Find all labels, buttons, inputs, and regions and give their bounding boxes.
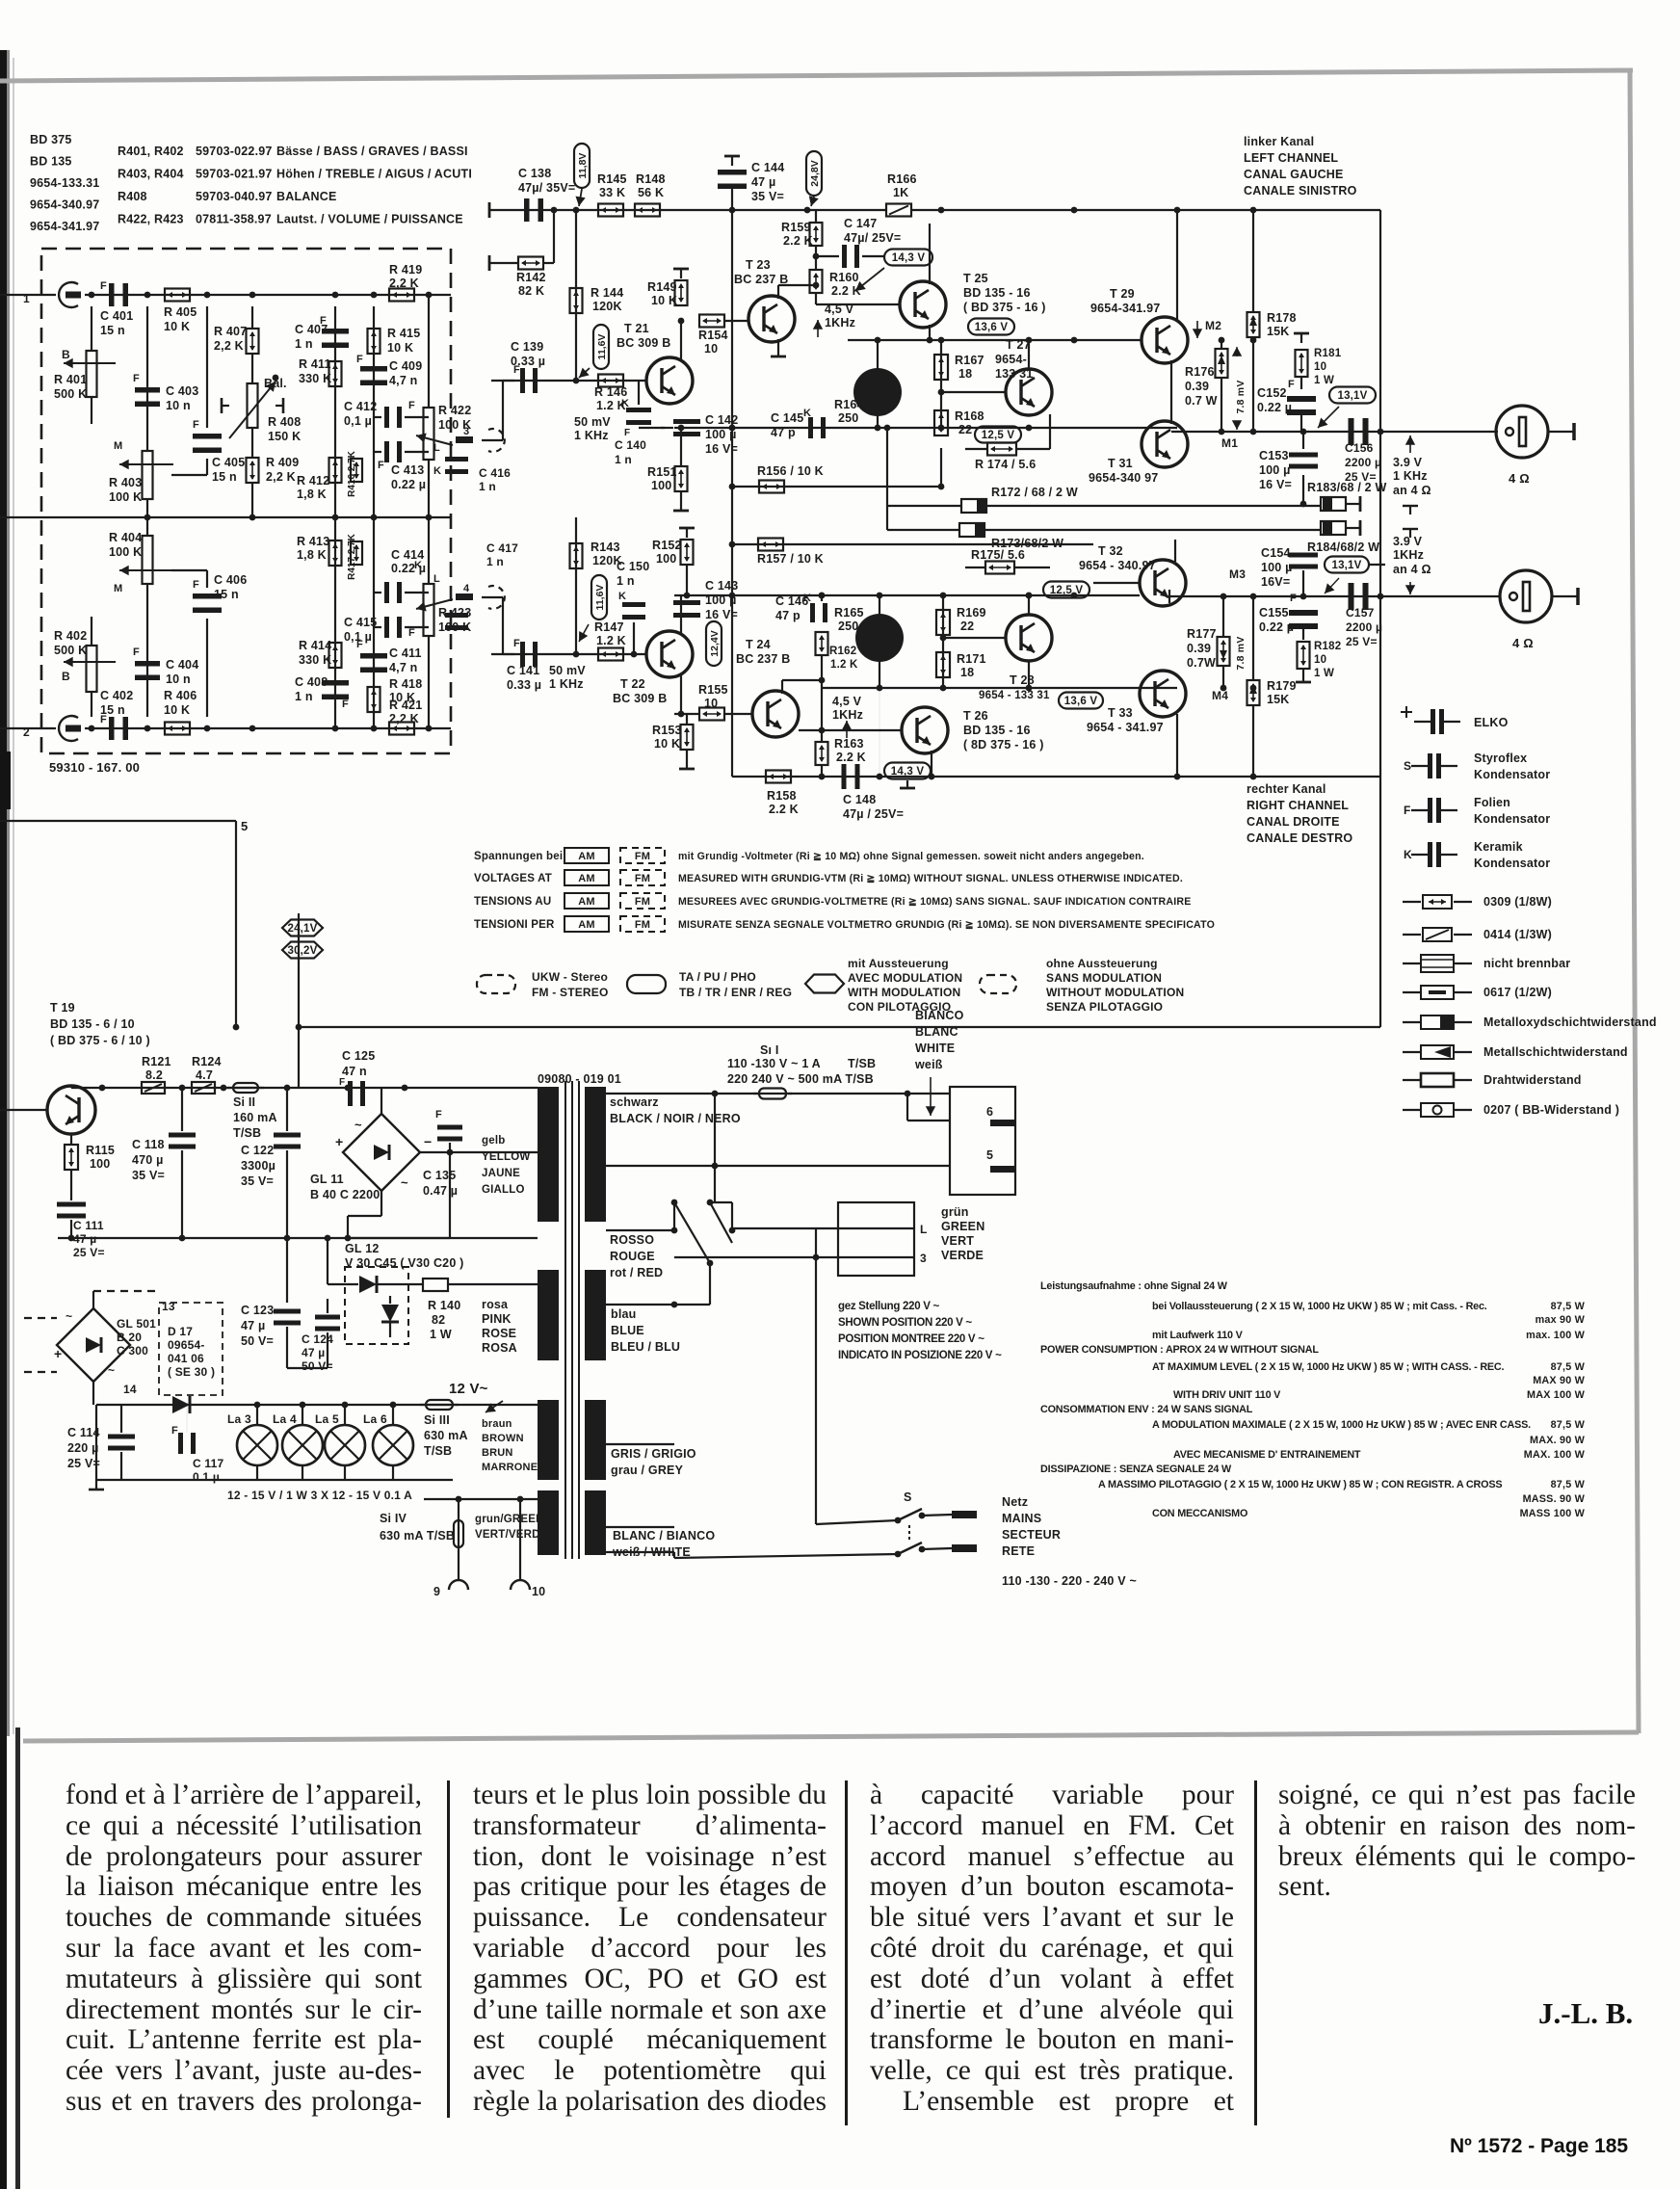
svg-text:blau: blau bbox=[611, 1307, 637, 1321]
svg-text:SANS MODULATION: SANS MODULATION bbox=[1046, 971, 1162, 985]
svg-text:13,6 V: 13,6 V bbox=[975, 322, 1009, 333]
svg-text:R182: R182 bbox=[1314, 641, 1341, 652]
svg-text:DISSIPAZIONE : SENZA SEGNALE 2: DISSIPAZIONE : SENZA SEGNALE 24 W bbox=[1040, 1464, 1232, 1475]
svg-text:0207 ( BB-Widerstand ): 0207 ( BB-Widerstand ) bbox=[1483, 1103, 1619, 1117]
svg-text:0.47 µ: 0.47 µ bbox=[423, 1184, 458, 1198]
svg-text:1 W: 1 W bbox=[1314, 375, 1334, 386]
svg-text:schwarz: schwarz bbox=[610, 1095, 659, 1109]
svg-text:3.9 V: 3.9 V bbox=[1393, 456, 1423, 469]
svg-text:T/SB: T/SB bbox=[233, 1126, 261, 1140]
svg-text:BC 309 B: BC 309 B bbox=[617, 336, 670, 350]
svg-text:13,6 V: 13,6 V bbox=[1064, 696, 1098, 707]
svg-text:D 17: D 17 bbox=[168, 1325, 193, 1338]
svg-text:2,2 K: 2,2 K bbox=[389, 277, 419, 290]
svg-text:JAUNE: JAUNE bbox=[482, 1168, 520, 1179]
svg-text:10: 10 bbox=[704, 342, 718, 356]
svg-text:10 K: 10 K bbox=[387, 341, 413, 355]
svg-text:R 403: R 403 bbox=[109, 476, 142, 489]
svg-text:8.2: 8.2 bbox=[145, 1068, 163, 1082]
svg-text:13,1V: 13,1V bbox=[1331, 560, 1361, 571]
svg-text:C 407: C 407 bbox=[295, 323, 328, 336]
svg-text:R143: R143 bbox=[591, 541, 620, 554]
svg-text:F: F bbox=[100, 280, 107, 292]
svg-text:0,1 µ: 0,1 µ bbox=[344, 630, 372, 644]
svg-text:ROSA: ROSA bbox=[482, 1341, 517, 1355]
svg-text:BLANC / BIANCO: BLANC / BIANCO bbox=[613, 1529, 715, 1543]
svg-text:FM: FM bbox=[635, 851, 650, 862]
svg-text:BLEU / BLU: BLEU / BLU bbox=[611, 1340, 680, 1354]
svg-text:250: 250 bbox=[838, 620, 858, 633]
svg-text:4,5 V: 4,5 V bbox=[825, 303, 854, 316]
svg-text:R151: R151 bbox=[647, 465, 677, 479]
svg-text:R 415: R 415 bbox=[387, 327, 420, 340]
svg-text:1 W: 1 W bbox=[1314, 668, 1334, 679]
svg-text:BRUN: BRUN bbox=[482, 1447, 513, 1459]
svg-text:R166: R166 bbox=[887, 172, 917, 186]
svg-text:MEASURED WITH GRUNDIG-VTM (Ri: MEASURED WITH GRUNDIG-VTM (Ri ≧ 10MΩ) WI… bbox=[678, 873, 1183, 884]
svg-text:0.39: 0.39 bbox=[1187, 642, 1211, 655]
svg-text:Höhen / TREBLE / AIGUS / ACUTI: Höhen / TREBLE / AIGUS / ACUTI bbox=[276, 168, 472, 181]
svg-text:Metalloxydschichtwiderstand: Metalloxydschichtwiderstand bbox=[1483, 1015, 1657, 1029]
svg-text:14,3 V: 14,3 V bbox=[891, 766, 925, 778]
svg-text:SENZA PILOTAGGIO: SENZA PILOTAGGIO bbox=[1046, 1000, 1163, 1014]
svg-text:0.33 µ: 0.33 µ bbox=[507, 678, 541, 692]
svg-text:mit Laufwerk 110 V: mit Laufwerk 110 V bbox=[1152, 1330, 1244, 1341]
svg-text:RETE: RETE bbox=[1002, 1544, 1035, 1558]
svg-text:R167: R167 bbox=[955, 354, 984, 367]
svg-text:4 Ω: 4 Ω bbox=[1509, 471, 1530, 486]
svg-text:ELKO: ELKO bbox=[1474, 716, 1509, 729]
svg-text:MISURATE SENZA SEGNALE VOLTMET: MISURATE SENZA SEGNALE VOLTMETRO GRUNDIG… bbox=[678, 919, 1215, 931]
svg-text:C 124: C 124 bbox=[302, 1332, 333, 1346]
svg-text:BALANCE: BALANCE bbox=[276, 190, 337, 203]
svg-text:100 µ: 100 µ bbox=[705, 593, 737, 607]
svg-text:grun/GREEN: grun/GREEN bbox=[475, 1514, 544, 1525]
svg-text:( SE 30 ): ( SE 30 ) bbox=[168, 1365, 215, 1379]
svg-text:R 414: R 414 bbox=[299, 639, 331, 652]
svg-text:La 6: La 6 bbox=[363, 1412, 387, 1426]
svg-text:35 V=: 35 V= bbox=[241, 1174, 274, 1188]
svg-text:( BD 375 - 6 / 10 ): ( BD 375 - 6 / 10 ) bbox=[50, 1034, 150, 1047]
svg-text:Si III: Si III bbox=[424, 1413, 450, 1427]
svg-text:Keramik: Keramik bbox=[1474, 840, 1523, 854]
svg-text:R147: R147 bbox=[594, 620, 624, 634]
svg-text:R179: R179 bbox=[1267, 679, 1297, 693]
svg-text:9654-340 97: 9654-340 97 bbox=[1089, 471, 1158, 485]
svg-text:BLUE: BLUE bbox=[611, 1324, 644, 1337]
svg-text:R403, R404: R403, R404 bbox=[118, 168, 184, 181]
svg-text:YELLOW: YELLOW bbox=[482, 1151, 530, 1163]
svg-text:( BD 375 - 16 ): ( BD 375 - 16 ) bbox=[963, 301, 1046, 314]
svg-text:La 3: La 3 bbox=[227, 1412, 251, 1426]
svg-text:MAINS: MAINS bbox=[1002, 1512, 1041, 1525]
svg-text:MARRONE: MARRONE bbox=[482, 1462, 538, 1473]
svg-text:WITH DRIV UNIT 110 V: WITH DRIV UNIT 110 V bbox=[1173, 1389, 1281, 1401]
svg-text:F: F bbox=[624, 428, 630, 438]
svg-text:POSITION MONTREE 220 V ~: POSITION MONTREE 220 V ~ bbox=[838, 1333, 984, 1345]
svg-text:10 K: 10 K bbox=[654, 737, 680, 751]
svg-text:Sı I: Sı I bbox=[760, 1043, 779, 1057]
svg-text:100 µ: 100 µ bbox=[1261, 561, 1293, 574]
svg-text:linker Kanal: linker Kanal bbox=[1244, 135, 1314, 148]
svg-text:gelb: gelb bbox=[482, 1135, 505, 1147]
svg-text:5: 5 bbox=[986, 1148, 993, 1162]
svg-text:T 26: T 26 bbox=[963, 709, 988, 723]
svg-text:+: + bbox=[335, 1134, 343, 1149]
svg-text:15 n: 15 n bbox=[100, 703, 125, 717]
svg-text:C 125: C 125 bbox=[342, 1049, 375, 1063]
svg-text:F: F bbox=[193, 579, 199, 591]
svg-text:B 40 C 2200: B 40 C 2200 bbox=[310, 1188, 380, 1201]
svg-text:0.7W: 0.7W bbox=[1187, 656, 1216, 670]
svg-text:3.9 V: 3.9 V bbox=[1393, 535, 1423, 548]
svg-text:9654 - 133 31: 9654 - 133 31 bbox=[979, 690, 1050, 701]
svg-text:59703-040.97: 59703-040.97 bbox=[196, 190, 273, 203]
svg-text:T 29: T 29 bbox=[1110, 287, 1135, 301]
svg-text:BD 135 - 16: BD 135 - 16 bbox=[963, 724, 1031, 737]
svg-text:0.7 W: 0.7 W bbox=[1185, 394, 1218, 408]
svg-text:C 403: C 403 bbox=[166, 384, 198, 398]
svg-text:R 412: R 412 bbox=[297, 474, 329, 488]
svg-text:1KHz: 1KHz bbox=[1393, 548, 1424, 562]
svg-text:C157: C157 bbox=[1346, 606, 1375, 620]
svg-text:11,8V: 11,8V bbox=[577, 153, 589, 179]
svg-text:R169: R169 bbox=[957, 606, 986, 620]
svg-text:9654 - 341.97: 9654 - 341.97 bbox=[1087, 721, 1164, 734]
svg-text:0617 (1/2W): 0617 (1/2W) bbox=[1483, 986, 1552, 999]
svg-text:56 K: 56 K bbox=[638, 186, 664, 199]
svg-text:BD 135 - 16: BD 135 - 16 bbox=[963, 286, 1031, 300]
svg-text:BD 135: BD 135 bbox=[30, 155, 72, 169]
svg-text:47 µ: 47 µ bbox=[751, 175, 775, 189]
svg-text:10: 10 bbox=[704, 697, 718, 710]
svg-text:R184/68/2 W: R184/68/2 W bbox=[1307, 541, 1379, 554]
svg-text:C 417: C 417 bbox=[486, 541, 518, 555]
svg-text:R 146: R 146 bbox=[594, 385, 627, 399]
svg-text:C 415: C 415 bbox=[344, 616, 377, 629]
svg-text:R401, R402: R401, R402 bbox=[118, 145, 184, 158]
svg-text:R181: R181 bbox=[1314, 348, 1342, 359]
svg-text:GL 11: GL 11 bbox=[310, 1173, 344, 1186]
svg-text:+: + bbox=[54, 1346, 62, 1361]
svg-text:220 µ: 220 µ bbox=[67, 1441, 99, 1455]
svg-text:R 411: R 411 bbox=[299, 357, 331, 371]
svg-text:25 V=: 25 V= bbox=[73, 1246, 105, 1259]
svg-text:C 402: C 402 bbox=[100, 689, 133, 702]
svg-text:C152: C152 bbox=[1257, 386, 1287, 400]
svg-text:2200 µ: 2200 µ bbox=[1346, 620, 1382, 634]
svg-text:GL 12: GL 12 bbox=[345, 1242, 380, 1255]
svg-text:3300µ: 3300µ bbox=[241, 1159, 276, 1173]
svg-text:1.2 K: 1.2 K bbox=[596, 634, 626, 647]
svg-text:R163: R163 bbox=[834, 737, 864, 751]
svg-text:2.2 K: 2.2 K bbox=[831, 284, 861, 298]
svg-text:R153: R153 bbox=[652, 724, 682, 737]
svg-text:7.8 mV: 7.8 mV bbox=[1235, 636, 1247, 670]
svg-text:09654-: 09654- bbox=[168, 1338, 205, 1352]
svg-text:1 KHz: 1 KHz bbox=[574, 429, 609, 442]
svg-text:35 V=: 35 V= bbox=[132, 1169, 165, 1182]
svg-text:1 KHz: 1 KHz bbox=[549, 677, 584, 691]
svg-text:1 KHz: 1 KHz bbox=[1393, 469, 1428, 483]
svg-text:10: 10 bbox=[1314, 361, 1326, 373]
svg-text:1 n: 1 n bbox=[295, 690, 313, 703]
svg-text:WITHOUT MODULATION: WITHOUT MODULATION bbox=[1046, 986, 1184, 999]
svg-text:9654-341.97: 9654-341.97 bbox=[1090, 302, 1160, 315]
svg-text:4.7: 4.7 bbox=[196, 1068, 213, 1082]
svg-text:47 µ: 47 µ bbox=[302, 1346, 325, 1359]
svg-text:2.2 K: 2.2 K bbox=[769, 803, 799, 816]
svg-text:330 K: 330 K bbox=[299, 653, 331, 667]
svg-text:R152: R152 bbox=[652, 539, 682, 552]
svg-text:9654-340.97: 9654-340.97 bbox=[30, 198, 99, 212]
svg-text:9: 9 bbox=[433, 1585, 440, 1598]
svg-text:C 413: C 413 bbox=[391, 463, 424, 477]
svg-text:Si II: Si II bbox=[233, 1095, 255, 1109]
svg-text:C155: C155 bbox=[1259, 606, 1289, 620]
svg-text:UKW - Stereo: UKW - Stereo bbox=[532, 970, 608, 984]
svg-text:R162: R162 bbox=[829, 646, 856, 657]
svg-text:INDICATO IN POSIZIONE 220 V ~: INDICATO IN POSIZIONE 220 V ~ bbox=[838, 1350, 1002, 1361]
svg-text:MASS. 90 W: MASS. 90 W bbox=[1523, 1493, 1586, 1505]
svg-text:R148: R148 bbox=[636, 172, 666, 186]
svg-text:Kondensator: Kondensator bbox=[1474, 812, 1550, 826]
svg-text:9654-133.31: 9654-133.31 bbox=[30, 176, 99, 190]
svg-text:0.1 µ: 0.1 µ bbox=[193, 1470, 220, 1484]
svg-text:TENSIONI PER: TENSIONI PER bbox=[474, 919, 555, 931]
svg-text:630 mA: 630 mA bbox=[424, 1429, 468, 1442]
svg-text:GREEN: GREEN bbox=[941, 1220, 984, 1233]
svg-text:133 31: 133 31 bbox=[995, 367, 1033, 381]
svg-text:25 V=: 25 V= bbox=[1346, 635, 1378, 648]
svg-text:C 147: C 147 bbox=[844, 217, 877, 230]
svg-text:R176: R176 bbox=[1185, 365, 1215, 379]
svg-text:R 405: R 405 bbox=[164, 305, 197, 319]
svg-text:R121: R121 bbox=[142, 1055, 171, 1068]
svg-text:2,2 K: 2,2 K bbox=[266, 470, 296, 484]
svg-text:4: 4 bbox=[463, 583, 470, 594]
svg-text:R156 / 10 K: R156 / 10 K bbox=[757, 464, 824, 478]
svg-text:18: 18 bbox=[958, 367, 972, 381]
svg-text:R142: R142 bbox=[516, 271, 546, 284]
svg-text:an 4 Ω: an 4 Ω bbox=[1393, 563, 1431, 576]
svg-text:C 140: C 140 bbox=[615, 438, 646, 452]
svg-text:R422, R423: R422, R423 bbox=[118, 213, 184, 226]
svg-text:C 117: C 117 bbox=[193, 1457, 223, 1470]
svg-text:3: 3 bbox=[920, 1252, 927, 1265]
svg-text:FM - STEREO: FM - STEREO bbox=[532, 986, 609, 999]
svg-text:VERT: VERT bbox=[941, 1234, 974, 1248]
svg-text:F: F bbox=[171, 1425, 178, 1437]
svg-text:C 405: C 405 bbox=[212, 456, 245, 469]
svg-text:Bal.: Bal. bbox=[264, 377, 287, 390]
svg-text:C 406: C 406 bbox=[214, 573, 247, 587]
svg-text:Folien: Folien bbox=[1474, 796, 1510, 809]
svg-text:R124: R124 bbox=[192, 1055, 222, 1068]
svg-text:R 408: R 408 bbox=[268, 415, 301, 429]
svg-text:R175/ 5.6: R175/ 5.6 bbox=[971, 548, 1025, 562]
svg-text:AM: AM bbox=[578, 919, 595, 931]
svg-text:47µ/ 35V=: 47µ/ 35V= bbox=[518, 181, 575, 195]
svg-text:82: 82 bbox=[432, 1313, 445, 1327]
svg-text:50 mV: 50 mV bbox=[574, 415, 611, 429]
svg-text:25 V=: 25 V= bbox=[67, 1457, 100, 1470]
svg-text:C 143: C 143 bbox=[705, 579, 738, 593]
svg-text:1 n: 1 n bbox=[479, 480, 496, 493]
svg-text:C 408: C 408 bbox=[295, 675, 328, 689]
svg-text:rosa: rosa bbox=[482, 1298, 509, 1311]
svg-text:6: 6 bbox=[986, 1105, 993, 1119]
svg-text:BLACK / NOIR / NERO: BLACK / NOIR / NERO bbox=[610, 1112, 741, 1125]
svg-text:R 402: R 402 bbox=[54, 629, 87, 643]
svg-text:C 141: C 141 bbox=[507, 664, 539, 677]
svg-text:0.33 µ: 0.33 µ bbox=[511, 355, 545, 368]
svg-text:33 K: 33 K bbox=[599, 186, 625, 199]
svg-text:F: F bbox=[1290, 593, 1297, 604]
svg-text:R115: R115 bbox=[86, 1144, 115, 1157]
svg-text:1 n: 1 n bbox=[486, 555, 504, 568]
svg-text:C 300: C 300 bbox=[117, 1344, 148, 1358]
svg-text:GRIS / GRIGIO: GRIS / GRIGIO bbox=[611, 1447, 696, 1461]
svg-text:R417 2,7K: R417 2,7K bbox=[347, 533, 357, 580]
svg-text:ROSE: ROSE bbox=[482, 1327, 516, 1340]
svg-text:V 30 C45 ( V30 C20 ): V 30 C45 ( V30 C20 ) bbox=[345, 1256, 464, 1270]
svg-text:12 - 15 V / 1 W 3 X 12 - 1: 12 - 15 V / 1 W 3 X 12 - 15 V 0.1 A bbox=[227, 1489, 412, 1502]
svg-text:Si IV: Si IV bbox=[380, 1512, 407, 1525]
svg-text:BIANCO: BIANCO bbox=[915, 1009, 964, 1022]
svg-text:T 19: T 19 bbox=[50, 1001, 75, 1015]
svg-text:R 144: R 144 bbox=[591, 286, 623, 300]
svg-text:BC 237 B: BC 237 B bbox=[736, 652, 790, 666]
svg-text:100: 100 bbox=[90, 1157, 110, 1171]
svg-text:10: 10 bbox=[532, 1585, 545, 1598]
svg-text:15K: 15K bbox=[1267, 693, 1290, 706]
svg-text:S: S bbox=[904, 1490, 912, 1504]
svg-text:nicht brennbar: nicht brennbar bbox=[1483, 957, 1570, 970]
svg-text:A MASSIMO PILOTAGGIO ( 2 X 15: A MASSIMO PILOTAGGIO ( 2 X 15 W, 1000 Hz… bbox=[1098, 1479, 1502, 1490]
svg-text:2,2 K: 2,2 K bbox=[389, 712, 419, 725]
svg-text:1 n: 1 n bbox=[295, 337, 313, 351]
svg-text:T 24: T 24 bbox=[746, 638, 771, 651]
svg-text:AVEC MECANISME D' ENTRAINEMENT: AVEC MECANISME D' ENTRAINEMENT bbox=[1173, 1449, 1361, 1461]
svg-text:R158: R158 bbox=[767, 789, 797, 803]
svg-text:BD 375: BD 375 bbox=[30, 133, 72, 146]
svg-text:M2: M2 bbox=[1205, 319, 1221, 332]
svg-text:10 K: 10 K bbox=[164, 703, 190, 717]
svg-text:0.39: 0.39 bbox=[1185, 380, 1209, 393]
svg-text:R160: R160 bbox=[829, 271, 859, 284]
svg-text:500 K: 500 K bbox=[54, 644, 87, 657]
svg-text:C 123: C 123 bbox=[241, 1304, 274, 1317]
svg-text:Styroflex: Styroflex bbox=[1474, 752, 1527, 765]
svg-text:82 K: 82 K bbox=[518, 284, 544, 298]
svg-text:F: F bbox=[193, 419, 199, 431]
svg-text:FM: FM bbox=[635, 919, 650, 931]
svg-text:R168: R168 bbox=[955, 409, 984, 423]
svg-text:F: F bbox=[1288, 379, 1295, 390]
svg-text:47µ / 25V=: 47µ / 25V= bbox=[843, 807, 904, 821]
svg-text:59310 - 167. 00: 59310 - 167. 00 bbox=[49, 760, 140, 775]
svg-text:CANAL GAUCHE: CANAL GAUCHE bbox=[1244, 168, 1344, 181]
svg-text:MAX. 100 W: MAX. 100 W bbox=[1524, 1449, 1586, 1461]
svg-text:C 401: C 401 bbox=[100, 309, 133, 323]
svg-text:SECTEUR: SECTEUR bbox=[1002, 1528, 1061, 1542]
svg-text:ROUGE: ROUGE bbox=[610, 1250, 655, 1263]
svg-text:AM: AM bbox=[578, 873, 595, 884]
svg-text:VERDE: VERDE bbox=[941, 1249, 984, 1262]
svg-text:R155: R155 bbox=[698, 683, 728, 697]
svg-text:R 140: R 140 bbox=[428, 1299, 460, 1312]
svg-text:24,1V: 24,1V bbox=[287, 923, 317, 935]
svg-text:F: F bbox=[339, 1077, 345, 1088]
svg-text:R165: R165 bbox=[834, 606, 864, 620]
svg-text:0.22 µ: 0.22 µ bbox=[1259, 620, 1294, 634]
svg-text:100 µ: 100 µ bbox=[1259, 463, 1291, 477]
svg-text:T 25: T 25 bbox=[963, 272, 988, 285]
svg-text:MAX. 90 W: MAX. 90 W bbox=[1530, 1435, 1586, 1446]
svg-text:Drahtwiderstand: Drahtwiderstand bbox=[1483, 1073, 1582, 1087]
svg-text:R416 2,7K: R416 2,7K bbox=[347, 450, 357, 497]
svg-text:C 416: C 416 bbox=[479, 466, 511, 480]
svg-text:15 n: 15 n bbox=[214, 588, 239, 601]
svg-text:B: B bbox=[62, 348, 70, 361]
svg-text:220 240 V ~ 500 mA T/SB: 220 240 V ~ 500 mA T/SB bbox=[727, 1072, 874, 1086]
svg-text:10: 10 bbox=[1314, 654, 1326, 666]
svg-text:GL 501: GL 501 bbox=[117, 1317, 156, 1331]
svg-text:120K: 120K bbox=[592, 300, 622, 313]
svg-text:14: 14 bbox=[123, 1383, 137, 1396]
svg-text:T 23: T 23 bbox=[746, 258, 771, 272]
svg-text:CANALE DESTRO: CANALE DESTRO bbox=[1247, 831, 1352, 845]
svg-text:F: F bbox=[378, 460, 384, 471]
svg-text:R164: R164 bbox=[834, 398, 864, 411]
svg-text:12,5 V: 12,5 V bbox=[982, 430, 1015, 441]
svg-text:mit Grundig -Voltmeter (Ri ≧ 1: mit Grundig -Voltmeter (Ri ≧ 10 MΩ) ohne… bbox=[678, 851, 1144, 862]
svg-text:max 90 W: max 90 W bbox=[1536, 1314, 1586, 1326]
svg-text:R183/68 / 2 W: R183/68 / 2 W bbox=[1307, 481, 1387, 494]
svg-text:50 V=: 50 V= bbox=[241, 1334, 274, 1348]
svg-text:11,6V: 11,6V bbox=[596, 334, 608, 360]
svg-text:R408: R408 bbox=[118, 190, 147, 203]
svg-text:CANAL DROITE: CANAL DROITE bbox=[1247, 815, 1340, 829]
svg-text:La 5: La 5 bbox=[315, 1412, 339, 1426]
svg-text:24,8V: 24,8V bbox=[809, 160, 821, 186]
svg-text:M1: M1 bbox=[1221, 436, 1238, 450]
svg-text:M: M bbox=[114, 440, 122, 452]
svg-text:CON MECCANISMO: CON MECCANISMO bbox=[1152, 1508, 1247, 1519]
svg-text:A MODULATION MAXIMALE ( 2 X 1: A MODULATION MAXIMALE ( 2 X 15 W, 1000 H… bbox=[1152, 1419, 1531, 1431]
svg-text:−: − bbox=[424, 1134, 432, 1149]
svg-text:1,8 K: 1,8 K bbox=[297, 488, 327, 501]
svg-text:041 06: 041 06 bbox=[168, 1352, 204, 1365]
svg-text:F: F bbox=[356, 354, 363, 365]
svg-text:15 n: 15 n bbox=[212, 470, 237, 484]
svg-text:BD 135 - 6 / 10: BD 135 - 6 / 10 bbox=[50, 1017, 135, 1031]
svg-text:F: F bbox=[408, 627, 415, 639]
svg-text:AVEC MODULATION: AVEC MODULATION bbox=[848, 971, 962, 985]
svg-text:C 138: C 138 bbox=[518, 167, 551, 180]
svg-text:MESUREES AVEC GRUNDIG-VOLTMETR: MESUREES AVEC GRUNDIG-VOLTMETRE (Ri ≧ 10… bbox=[678, 896, 1191, 908]
svg-text:K: K bbox=[1404, 848, 1412, 861]
svg-text:630 mA T/SB: 630 mA T/SB bbox=[380, 1529, 455, 1543]
svg-text:100: 100 bbox=[656, 552, 676, 566]
svg-text:bei Vollaussteuerung ( 2 X 15: bei Vollaussteuerung ( 2 X 15 W, 1000 Hz… bbox=[1152, 1301, 1487, 1312]
svg-text:L: L bbox=[433, 442, 440, 454]
svg-text:rechter Kanal: rechter Kanal bbox=[1247, 782, 1326, 796]
svg-text:R 174 / 5.6: R 174 / 5.6 bbox=[975, 458, 1036, 471]
svg-text:C156: C156 bbox=[1345, 441, 1374, 455]
svg-text:an 4 Ω: an 4 Ω bbox=[1393, 484, 1431, 497]
